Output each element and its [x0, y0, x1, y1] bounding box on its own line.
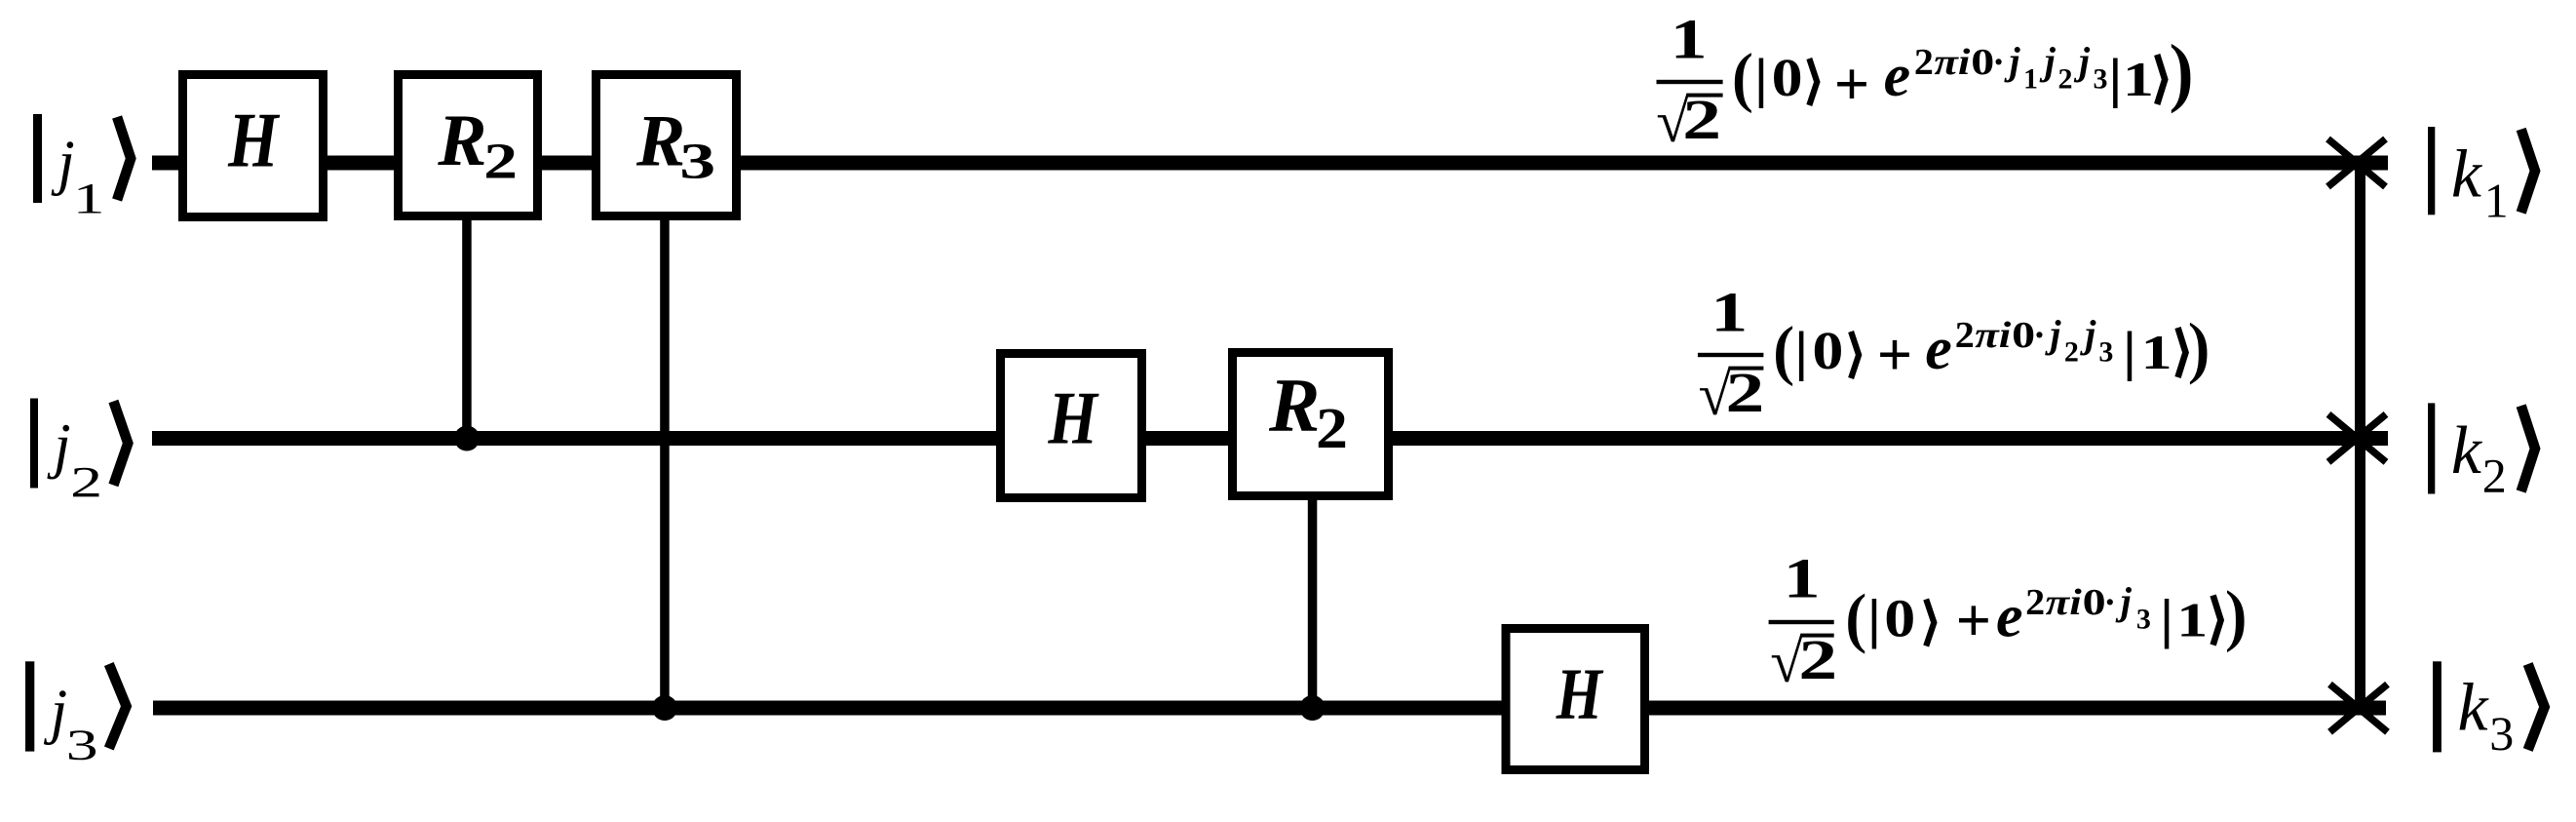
- svg-text:): ): [2169, 29, 2195, 115]
- svg-text:πi: πi: [1975, 315, 2012, 356]
- value label formula q3: (1/sqrt2)(|0>+e^(2pi i 0.j3)|1>): [1769, 547, 2249, 695]
- svg-text:+: +: [1877, 320, 1912, 389]
- wire control R2 (q2->q3): [1308, 495, 1318, 708]
- svg-text:3: 3: [679, 135, 715, 190]
- svg-text:·: ·: [1992, 42, 2005, 83]
- svg-text:2: 2: [1725, 361, 1764, 424]
- wire control R3 (q1->q3): [660, 215, 670, 708]
- wire qubit line 3 (|j3> rail): [153, 701, 2386, 716]
- gate H (U4, qubit 2): [1001, 354, 1142, 498]
- svg-text:j: j: [2079, 312, 2096, 356]
- svg-text:R: R: [1268, 363, 1320, 448]
- node label ket |j2>: [30, 399, 128, 507]
- svg-text:1: 1: [2176, 593, 2208, 647]
- svg-text:1: 1: [1711, 280, 1748, 343]
- svg-text:j: j: [51, 128, 75, 196]
- svg-text:3: 3: [2094, 63, 2108, 96]
- control node on q3 (from R3): [652, 695, 677, 721]
- svg-text:e: e: [1996, 584, 2023, 650]
- svg-text:1: 1: [2123, 52, 2154, 106]
- svg-text:2: 2: [483, 135, 518, 190]
- svg-text:k: k: [2458, 670, 2490, 745]
- node label ket |j1>: [33, 114, 131, 222]
- svg-text:+: +: [1834, 49, 1869, 118]
- svg-text:1: 1: [2023, 63, 2038, 96]
- svg-text:3: 3: [2136, 604, 2151, 636]
- svg-text:1: 1: [2141, 325, 2172, 379]
- svg-text:j: j: [44, 678, 68, 746]
- gate R3 (U3, controlled-R3 q3->q1): [596, 75, 737, 216]
- svg-text:0: 0: [1812, 321, 1843, 380]
- gate R2 (U2, controlled-R2 q2->q1): [399, 75, 538, 216]
- svg-text:H: H: [227, 98, 280, 183]
- svg-text:1: 1: [2484, 173, 2509, 227]
- control node on q3 (from R2): [1300, 695, 1326, 721]
- svg-text:H: H: [1556, 653, 1604, 735]
- svg-text:k: k: [2451, 137, 2483, 213]
- svg-text:2: 2: [2064, 336, 2079, 369]
- svg-text:j: j: [2004, 39, 2021, 83]
- svg-text:2: 2: [1798, 628, 1837, 691]
- svg-text:j: j: [2044, 312, 2061, 356]
- node label ket |j3>: [25, 661, 127, 768]
- svg-text:πi: πi: [2046, 582, 2083, 623]
- svg-text:j: j: [2039, 39, 2057, 83]
- value label formula q2: (1/sqrt2)(|0>+e^(2pi i 0.j2j3)|1>): [1698, 280, 2211, 428]
- svg-text:1: 1: [73, 175, 105, 222]
- svg-text:·: ·: [2104, 582, 2117, 623]
- svg-text:2: 2: [70, 458, 102, 506]
- svg-text:(: (: [1773, 313, 1795, 388]
- svg-text:H: H: [1048, 377, 1100, 459]
- swap cross on q3: [2330, 685, 2388, 732]
- svg-text:2: 2: [1914, 42, 1934, 83]
- node label ket |k3>: [2433, 661, 2545, 761]
- svg-text:1: 1: [1671, 8, 1708, 71]
- svg-text:R: R: [635, 101, 685, 182]
- svg-text:R: R: [437, 100, 486, 181]
- node label ket |k1>: [2428, 127, 2535, 227]
- svg-text:2: 2: [1955, 315, 1975, 356]
- svg-text:2: 2: [1316, 396, 1348, 460]
- node label ket |k2>: [2428, 403, 2535, 502]
- svg-text:(: (: [1731, 40, 1753, 115]
- svg-text:0: 0: [1772, 48, 1803, 107]
- svg-text:+: +: [1956, 585, 1991, 654]
- svg-text:j: j: [2073, 39, 2091, 83]
- svg-text:0: 0: [1884, 589, 1915, 648]
- wire qubit line 2 (|j2> rail): [152, 431, 2388, 446]
- swap cross on q2: [2328, 414, 2386, 462]
- svg-text:2: 2: [2058, 63, 2073, 96]
- wire qubit line 1 (|j1> rail): [152, 156, 2388, 171]
- gate R2 (U5, controlled-R2 q3->q2): [1233, 353, 1389, 496]
- svg-text:1: 1: [1784, 547, 1821, 610]
- svg-text:2: 2: [1682, 88, 1721, 151]
- gate H (U6, qubit 3): [1506, 629, 1645, 770]
- svg-text:(: (: [1845, 581, 1867, 656]
- svg-text:0: 0: [2083, 582, 2106, 623]
- svg-text:3: 3: [2489, 706, 2514, 761]
- svg-text:·: ·: [2033, 315, 2046, 356]
- svg-text:2: 2: [2482, 448, 2507, 502]
- svg-text:3: 3: [2098, 336, 2113, 369]
- gate H (U1, qubit 1): [183, 75, 324, 217]
- svg-text:k: k: [2451, 413, 2483, 489]
- swap cross on q1: [2328, 139, 2386, 187]
- svg-text:e: e: [1925, 316, 1952, 382]
- wire control R2 (q1->q2): [462, 215, 472, 439]
- svg-text:j: j: [47, 411, 71, 480]
- svg-text:): ): [2187, 308, 2211, 386]
- value label formula q1: (1/sqrt2)(|0>+e^(2pi i 0.j1j2j3)|1>): [1656, 8, 2194, 155]
- svg-text:πi: πi: [1934, 42, 1971, 83]
- control node on q2: [454, 426, 480, 451]
- svg-text:): ): [2224, 576, 2248, 654]
- svg-text:0: 0: [1971, 42, 1994, 83]
- svg-text:j: j: [2115, 579, 2133, 623]
- wire swap connector (q1-q3): [2355, 163, 2365, 712]
- svg-text:2: 2: [2025, 582, 2045, 623]
- svg-text:0: 0: [2012, 315, 2035, 356]
- svg-text:e: e: [1884, 43, 1911, 109]
- svg-text:3: 3: [66, 722, 98, 769]
